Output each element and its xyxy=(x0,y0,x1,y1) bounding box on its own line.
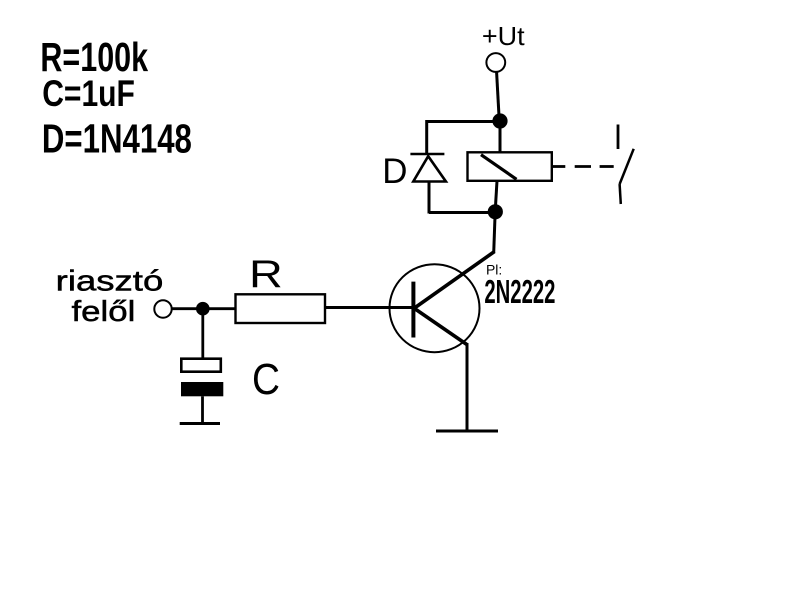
junction top node xyxy=(492,113,507,128)
wire junction down to capacitor xyxy=(201,309,204,359)
terminal input xyxy=(154,300,171,317)
capacitor C bottom plate xyxy=(181,382,223,396)
svg-text:2N2222: 2N2222 xyxy=(484,273,555,310)
transistor Q1 emitter diagonal xyxy=(415,309,467,345)
wire capacitor to ground xyxy=(201,396,204,423)
wire collector to bottom junction xyxy=(494,208,496,253)
transistor Q1 collector diagonal xyxy=(415,252,495,309)
transistor Q1 base bar xyxy=(411,282,415,338)
junction bottom node xyxy=(488,204,503,219)
svg-text:R: R xyxy=(249,253,283,296)
wire +Ut to top junction xyxy=(497,72,499,116)
svg-text:D: D xyxy=(382,151,407,191)
junction input node xyxy=(196,302,210,316)
svg-text:C: C xyxy=(252,356,280,404)
resistor R body xyxy=(236,294,326,323)
wire emitter to ground xyxy=(466,343,469,430)
switch contact blade xyxy=(620,149,634,184)
dashed actuator link segment 2 xyxy=(600,165,614,168)
terminal +Ut xyxy=(486,53,505,72)
svg-text:D=1N4148: D=1N4148 xyxy=(42,115,192,161)
capacitor C top plate xyxy=(181,359,221,372)
wire input to junction xyxy=(172,307,236,310)
diode D cathode bar xyxy=(410,153,444,156)
wire top junction into relay xyxy=(499,121,502,152)
svg-text:felől: felől xyxy=(72,296,136,328)
relay actuator stub xyxy=(552,165,566,168)
svg-text:riasztó: riasztó xyxy=(56,266,164,298)
relay coil diagonal xyxy=(481,155,517,180)
svg-text:C=1uF: C=1uF xyxy=(42,73,135,114)
relay coil K1 body xyxy=(468,152,552,181)
switch contact lower terminal xyxy=(620,184,621,204)
switch contact fixed terminal xyxy=(617,125,620,150)
transistor Q1 circle xyxy=(390,264,480,352)
ground capacitor xyxy=(180,422,220,425)
wire diode branch vertical down xyxy=(425,120,428,154)
wire diode anode down xyxy=(428,182,431,214)
ground emitter xyxy=(436,430,498,433)
svg-text:+Ut: +Ut xyxy=(482,21,526,51)
dashed actuator link xyxy=(575,165,591,168)
wire bottom of diode branch (horizontal) xyxy=(429,211,495,214)
diode D triangle xyxy=(413,156,446,181)
wire junction to diode branch (horizontal) xyxy=(427,120,496,123)
wire relay to bottom junction xyxy=(496,181,498,206)
wire resistor to transistor base xyxy=(325,306,413,309)
